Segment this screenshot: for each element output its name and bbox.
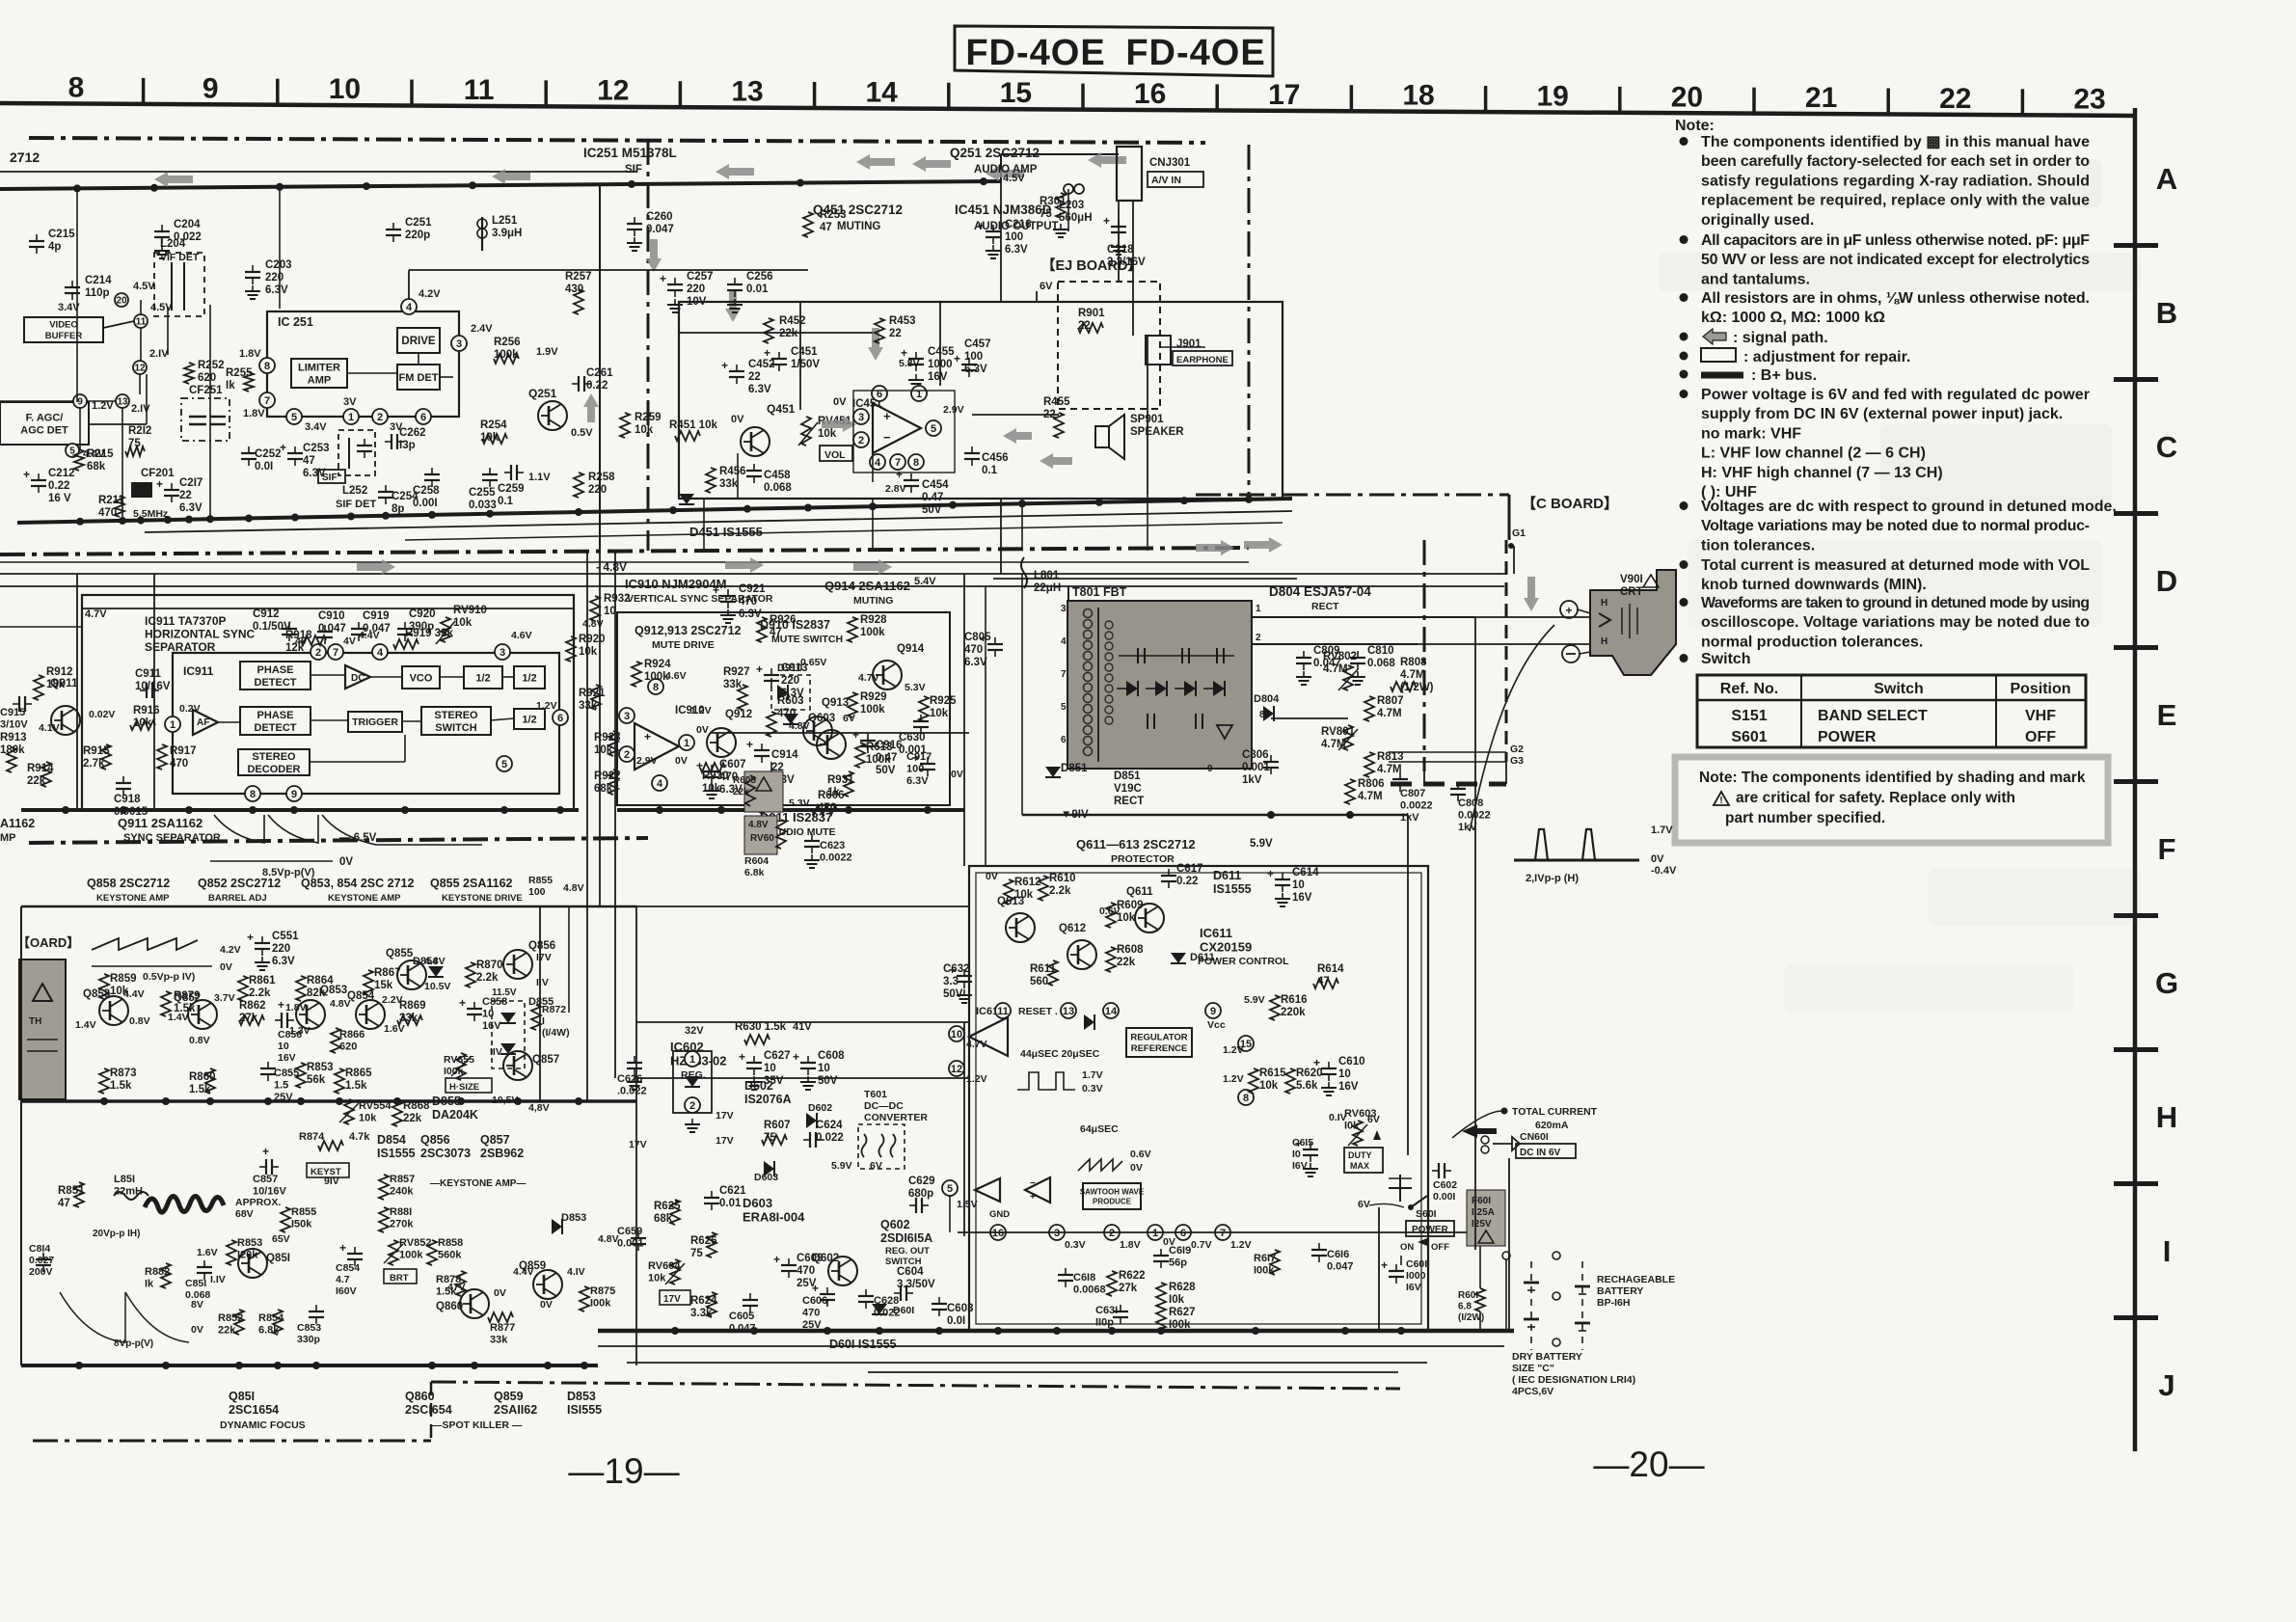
svg-text:DETECT: DETECT: [255, 722, 297, 734]
voltage 17V: [629, 1135, 734, 1150]
svg-text:0.033: 0.033: [469, 500, 497, 511]
svg-text:4.7k: 4.7k: [349, 1131, 370, 1143]
svg-text:C203: C203: [265, 259, 292, 271]
svg-text:B: B: [2156, 296, 2177, 330]
board EJ outline: [1058, 282, 1160, 409]
svg-text:47: 47: [820, 222, 832, 233]
wire audio v975: [939, 302, 941, 386]
svg-text:DUTY: DUTY: [1348, 1150, 1372, 1160]
svg-text:220p: 220p: [405, 230, 430, 241]
capacitor C918: [114, 776, 149, 818]
svg-text:CRT: CRT: [1620, 586, 1643, 598]
svg-text:C810: C810: [1367, 645, 1394, 657]
inductor L251: [477, 215, 522, 251]
svg-text:L252: L252: [342, 485, 367, 497]
svg-text:I00k: I00k: [590, 1298, 611, 1310]
svg-text:KEYSTONE AMP: KEYSTONE AMP: [328, 893, 401, 904]
capacitor C617: [1161, 863, 1203, 888]
svg-text:C256: C256: [746, 271, 773, 283]
diode D910: [771, 657, 826, 710]
svg-text:R901: R901: [1078, 308, 1105, 319]
svg-text:0V: 0V: [986, 871, 998, 882]
diode D602: [806, 1102, 832, 1128]
wire fbt bottom: [1022, 811, 1408, 819]
svg-text:3/10V: 3/10V: [0, 719, 28, 731]
svg-text:4.6V: 4.6V: [511, 630, 532, 641]
svg-text:47: 47: [1317, 976, 1330, 987]
svg-text:22μH: 22μH: [1034, 582, 1061, 594]
svg-text:220: 220: [588, 484, 607, 496]
svg-text:0.5V: 0.5V: [571, 427, 593, 439]
svg-text:Note: The components identifie: Note: The components identified by shadi…: [1699, 770, 2086, 786]
pin 8: [648, 670, 687, 694]
svg-text:33k: 33k: [723, 679, 743, 690]
capacitor C854: [336, 1241, 363, 1297]
switch S601: [1400, 1196, 1454, 1253]
svg-text:R88I: R88I: [390, 1206, 412, 1218]
svg-text:4.IV: 4.IV: [567, 1266, 585, 1278]
svg-text:PHASE: PHASE: [257, 710, 294, 721]
svg-text:0.8V: 0.8V: [189, 1035, 210, 1046]
svg-text:0.01: 0.01: [746, 284, 769, 295]
svg-text:D804 ESJA57-04: D804 ESJA57-04: [1269, 584, 1371, 599]
svg-text:H: H: [2156, 1100, 2177, 1134]
svg-text:2SCI654: 2SCI654: [405, 1403, 452, 1417]
filter CF251: [181, 385, 230, 441]
svg-text:2.2k: 2.2k: [249, 987, 271, 999]
pin 2: [853, 432, 869, 447]
scan ghost blob 6: [1784, 964, 2073, 1013]
pin 11: [134, 314, 148, 328]
svg-text:C260: C260: [646, 211, 673, 223]
svg-text:VOL: VOL: [824, 449, 846, 461]
voltage 5.4V: [914, 576, 936, 587]
svg-text:6V: 6V: [1367, 1114, 1380, 1125]
svg-text:Q858: Q858: [83, 988, 111, 1000]
svg-text:AUDIO OUTPUT: AUDIO OUTPUT: [974, 221, 1059, 232]
svg-text:4.7V: 4.7V: [966, 1039, 987, 1050]
connector CNJ301: [1117, 147, 1203, 201]
svg-text:4.7M: 4.7M: [1400, 669, 1425, 681]
svg-text:I3p: I3p: [399, 440, 416, 451]
svg-text:Q852: Q852: [174, 992, 201, 1004]
svg-text:+: +: [1381, 1258, 1388, 1272]
resistor R915: [83, 744, 111, 770]
svg-text:9: 9: [291, 789, 297, 800]
svg-text:8: 8: [913, 457, 919, 469]
svg-text:R932: R932: [604, 593, 631, 605]
svg-text:Vcc: Vcc: [1207, 1019, 1226, 1031]
block PHASE DETECT 1: [240, 662, 311, 689]
IC451 label: [955, 203, 1059, 232]
svg-text:R882: R882: [145, 1266, 170, 1278]
svg-text:620: 620: [339, 1041, 357, 1053]
resistor R923: [594, 731, 621, 756]
svg-text:— 6.5V: — 6.5V: [339, 832, 377, 844]
svg-text:50V: 50V: [818, 1075, 838, 1087]
svg-text:0.47: 0.47: [922, 492, 943, 503]
svg-text:S151: S151: [1731, 708, 1767, 724]
svg-text:470: 470: [802, 1308, 820, 1319]
svg-text:1.5k: 1.5k: [345, 1080, 367, 1092]
svg-text:CN60I: CN60I: [1520, 1131, 1549, 1143]
capacitor C215: [29, 229, 75, 254]
svg-text:(I/4W): (I/4W): [542, 1027, 570, 1039]
svg-text:C919: C919: [363, 610, 390, 622]
svg-text:R610: R610: [1049, 873, 1076, 884]
svg-text:R611: R611: [1030, 963, 1056, 975]
svg-text:RESET .: RESET .: [1018, 1006, 1058, 1017]
svg-text:Q852 2SC2712: Q852 2SC2712: [198, 877, 281, 890]
svg-text:6.3V: 6.3V: [272, 956, 295, 967]
svg-text:5: 5: [947, 1183, 953, 1195]
resistor R861: [238, 975, 276, 1001]
svg-text:C623: C623: [820, 840, 845, 852]
signal arrow into amp: [822, 417, 856, 432]
wire left edge keystone: [20, 906, 22, 1365]
svg-text:4.5V: 4.5V: [133, 281, 155, 292]
wire vertical divider x672: [647, 140, 650, 551]
CRT plus terminal: [1560, 601, 1578, 618]
svg-text:1: 1: [1152, 1228, 1158, 1239]
wire protector box: [969, 866, 1428, 1331]
resistor R875: [580, 1285, 615, 1311]
svg-text:R861: R861: [249, 975, 276, 987]
svg-text:6.3V: 6.3V: [964, 364, 987, 375]
potentiometer RV852: [384, 1237, 431, 1265]
scan ghost blob 3: [1880, 424, 2112, 511]
D855 label: [432, 1095, 550, 1122]
inductor L252 SIF DET: [336, 430, 376, 510]
svg-text:470: 470: [964, 644, 983, 656]
speaker SP901: [1095, 414, 1184, 459]
svg-text:Ref. No.: Ref. No.: [1720, 681, 1778, 697]
svg-text:27k: 27k: [239, 1013, 258, 1024]
svg-text:Q85I: Q85I: [266, 1253, 290, 1264]
resistor R853b: [296, 1062, 334, 1088]
svg-text:R851: R851: [58, 1185, 85, 1197]
svg-text:4.7M: 4.7M: [1358, 791, 1383, 802]
wire vert x80 mid: [76, 574, 78, 810]
svg-text:IC910 NJM2904M: IC910 NJM2904M: [625, 577, 727, 591]
svg-text:0.22: 0.22: [48, 480, 69, 492]
resistor R865: [335, 1068, 372, 1094]
svg-text:1.5k: 1.5k: [110, 1080, 132, 1092]
svg-text:E: E: [2157, 698, 2177, 732]
T601 label: [864, 1089, 928, 1123]
signal path arrow: [357, 559, 395, 575]
svg-text:56p: 56p: [1169, 1257, 1187, 1269]
svg-text:R614: R614: [1317, 963, 1344, 975]
svg-text:Q451: Q451: [767, 402, 796, 416]
svg-text:0.047: 0.047: [363, 623, 391, 635]
resistor R451: [669, 419, 717, 441]
Q914 label: [824, 579, 910, 607]
svg-text:2: 2: [377, 412, 383, 423]
svg-text:16V: 16V: [928, 371, 948, 383]
svg-text:−: −: [883, 430, 891, 445]
svg-text:C456: C456: [982, 452, 1009, 464]
svg-text:+: +: [812, 1282, 819, 1295]
svg-text:R607: R607: [764, 1120, 791, 1131]
arrow thick left: [1462, 1124, 1497, 1138]
svg-text:IS1555: IS1555: [1213, 882, 1252, 896]
svg-text:IC911 TA7370P: IC911 TA7370P: [145, 614, 227, 628]
voltage 4.5V: [150, 302, 173, 313]
svg-text:OFF: OFF: [2025, 729, 2056, 745]
svg-text:5.9V: 5.9V: [1244, 994, 1265, 1006]
capacitor C602: [1432, 1163, 1457, 1203]
svg-text:R927: R927: [723, 666, 750, 678]
capacitor C255: [469, 468, 498, 511]
svg-text:0.22: 0.22: [586, 380, 608, 392]
capacitor C623: [804, 834, 852, 868]
svg-text:ON: ON: [1400, 1242, 1414, 1253]
pin 4: [359, 630, 388, 660]
resistor R614: [1313, 963, 1344, 988]
svg-text:Q912: Q912: [725, 709, 752, 720]
svg-text:-0.4V: -0.4V: [1651, 865, 1677, 877]
svg-text:DRIVE: DRIVE: [401, 336, 435, 347]
svg-text:7: 7: [333, 647, 338, 659]
capacitor C624: [803, 1120, 844, 1148]
Q451 label: [813, 203, 903, 232]
svg-text:3V: 3V: [343, 396, 357, 408]
svg-text:C628: C628: [874, 1295, 899, 1307]
wire second top line: [0, 171, 636, 173]
svg-text:J: J: [2158, 1368, 2174, 1402]
capacitor C921: [713, 583, 766, 623]
waveform horizontal pulses: [1514, 825, 1677, 884]
capacitor C251: [386, 217, 432, 242]
svg-text:5: 5: [291, 412, 297, 423]
svg-text:I00k: I00k: [1169, 1319, 1191, 1331]
svg-text:R924: R924: [644, 659, 671, 670]
svg-text:no mark: VHF: no mark: VHF: [1701, 425, 1801, 442]
svg-text:2.2k: 2.2k: [476, 972, 499, 984]
svg-text:22: 22: [889, 328, 902, 339]
resistor R627: [1156, 1307, 1196, 1333]
svg-text:0.068: 0.068: [764, 482, 792, 494]
IC602 label: [670, 1040, 727, 1081]
svg-text:4.8V: 4.8V: [748, 820, 769, 830]
wire audio h430: [972, 414, 1059, 416]
svg-text:R915: R915: [83, 745, 110, 757]
transistor Q860: [436, 1282, 506, 1318]
transformer T801 FBT dark block: [1067, 585, 1252, 769]
svg-text:2: 2: [1109, 1228, 1115, 1239]
svg-text:75: 75: [764, 1132, 776, 1144]
capacitor C253: [280, 441, 330, 479]
svg-text:8: 8: [653, 682, 659, 693]
svg-text:4.5V: 4.5V: [1003, 173, 1025, 184]
svg-text:R858: R858: [438, 1237, 463, 1249]
page number 20: [1593, 1445, 1704, 1484]
svg-text:R625: R625: [654, 1201, 681, 1212]
svg-text:0.01: 0.01: [719, 1198, 742, 1209]
svg-text:0V: 0V: [833, 396, 847, 408]
svg-text:1.5: 1.5: [274, 1080, 288, 1092]
svg-text:C: C: [2156, 430, 2177, 464]
svg-text:22mH: 22mH: [114, 1186, 143, 1198]
D911 audio mute label: [760, 810, 836, 838]
pin 8: [245, 786, 260, 801]
svg-text:1: 1: [689, 1054, 695, 1066]
svg-text:620mA: 620mA: [1535, 1120, 1569, 1131]
wire keystone right col: [540, 906, 569, 1101]
svg-text:100k: 100k: [860, 627, 885, 638]
pin 4: [652, 775, 667, 791]
resistor R920: [566, 618, 606, 662]
potentiometer RV603: [1344, 1108, 1376, 1146]
svg-text:R608: R608: [1117, 944, 1144, 956]
svg-text:9: 9: [77, 397, 83, 408]
resistor R851: [58, 1182, 85, 1209]
pin 5: [926, 404, 964, 436]
svg-text:R922: R922: [594, 770, 621, 782]
potentiometer RV451: [798, 416, 852, 461]
voltage 0.1V: [1329, 1112, 1347, 1123]
svg-text:−: −: [1030, 1178, 1036, 1189]
svg-text:23: 23: [2073, 84, 2105, 116]
svg-text:20Vp-p IH): 20Vp-p IH): [93, 1229, 140, 1239]
svg-text:SPEAKER: SPEAKER: [1130, 426, 1184, 438]
adjustment DUTY MAX: [1344, 1148, 1383, 1173]
svg-text:22k: 22k: [27, 775, 46, 787]
svg-text:0.068: 0.068: [1367, 658, 1395, 669]
svg-text:3: 3: [1054, 1228, 1060, 1239]
signal path arrow: [583, 393, 599, 422]
wire dash vertical x1477: [1423, 540, 1426, 771]
wire audio v905: [872, 453, 874, 482]
voltage 65V: [272, 1233, 290, 1245]
svg-text:+: +: [773, 1253, 780, 1266]
svg-text:AMP: AMP: [308, 374, 331, 386]
svg-text:SIF: SIF: [625, 164, 642, 176]
wire fbt top h: [993, 578, 1297, 580]
svg-text:4.1V: 4.1V: [39, 722, 60, 734]
svg-text:+: +: [156, 477, 163, 491]
svg-text:22k: 22k: [403, 1113, 422, 1124]
transformer T801 internal rectifier: [1117, 648, 1234, 739]
svg-text:22: 22: [1078, 320, 1091, 332]
IC910 label: [625, 577, 773, 605]
svg-text:C629: C629: [908, 1176, 935, 1187]
svg-text:POWER: POWER: [1412, 1225, 1449, 1235]
svg-text:D851: D851: [1061, 763, 1088, 774]
svg-text:RECT: RECT: [1311, 601, 1339, 612]
svg-text:470: 470: [797, 1265, 815, 1277]
capacitor C216: [978, 219, 1032, 258]
svg-text:RV655: RV655: [444, 1054, 474, 1066]
svg-text:R252: R252: [198, 360, 225, 371]
svg-text:Q603: Q603: [808, 713, 835, 724]
svg-text:75: 75: [1040, 208, 1052, 220]
svg-text:R866: R866: [339, 1029, 365, 1041]
svg-text:R929: R929: [860, 691, 887, 703]
capacitor C808: [1450, 782, 1491, 833]
svg-text:33k: 33k: [490, 1335, 508, 1346]
svg-text:19: 19: [1537, 80, 1569, 112]
pin 1: [911, 386, 927, 401]
svg-text:2SC3073: 2SC3073: [420, 1147, 471, 1160]
title box: [955, 26, 1273, 76]
svg-text:R859: R859: [110, 973, 137, 985]
R604 label: [744, 855, 769, 879]
capacitor C252: [241, 446, 282, 473]
capacitor C203: [245, 259, 292, 299]
approx 68V: [235, 1197, 281, 1220]
label 20Vpp: [93, 1229, 140, 1239]
connector CN601: [1481, 1131, 1576, 1158]
svg-text:R60I: R60I: [1458, 1290, 1478, 1301]
svg-text:BATTERY: BATTERY: [1597, 1285, 1643, 1297]
svg-text:16 V: 16 V: [48, 493, 71, 504]
svg-text:1.4V: 1.4V: [75, 1019, 96, 1031]
svg-text:Note:: Note:: [1675, 118, 1715, 134]
resistor R931: [827, 771, 854, 798]
svg-text:0.3V: 0.3V: [1065, 1239, 1086, 1251]
svg-text:G2: G2: [1510, 743, 1524, 755]
voltage 1.2V: [1223, 1044, 1244, 1085]
svg-text:1/50V: 1/50V: [791, 359, 820, 370]
wire cnj301 col2: [1132, 201, 1134, 336]
pin 7: [1215, 1225, 1252, 1251]
wire video buffer: [103, 300, 141, 328]
svg-text:Q858 2SC2712: Q858 2SC2712: [87, 877, 170, 890]
svg-text:—19—: —19—: [568, 1451, 679, 1491]
svg-text:6V: 6V: [1358, 1199, 1370, 1210]
svg-text:6.8: 6.8: [1458, 1302, 1472, 1312]
voltage 0V: [951, 769, 963, 780]
voltage 5.9V: [1250, 838, 1273, 850]
svg-text:R913: R913: [0, 732, 27, 743]
svg-text:4: 4: [875, 457, 881, 469]
svg-text:R923: R923: [594, 732, 621, 743]
svg-text:17V: 17V: [716, 1110, 734, 1122]
voltage 5.3V: [789, 797, 810, 809]
svg-text:+: +: [1103, 214, 1110, 228]
pin 2: [295, 635, 326, 660]
svg-text:5.4V: 5.4V: [914, 576, 936, 587]
capacitor C607: [696, 759, 746, 798]
wire left keystone vertical: [20, 906, 22, 1134]
svg-text:470: 470: [170, 758, 188, 770]
capacitor C919: [351, 610, 391, 641]
pin 3: [451, 323, 493, 351]
resistor R807: [1364, 695, 1404, 721]
svg-text:F. AGC/: F. AGC/: [26, 412, 64, 423]
svg-text:R872: R872: [542, 1004, 566, 1015]
svg-text:1.2V: 1.2V: [1223, 1044, 1244, 1056]
svg-text:SAWTOOH WAVE: SAWTOOH WAVE: [1080, 1187, 1145, 1196]
signal path arrow extra4: [1040, 453, 1072, 469]
svg-text:C610: C610: [1338, 1056, 1365, 1068]
svg-text:0.001: 0.001: [617, 1238, 644, 1250]
svg-text:A1162: A1162: [0, 817, 35, 830]
wire mid vertical x1038: [1000, 499, 1002, 574]
potentiometer RV655: [444, 1053, 492, 1093]
signal path arrow: [1244, 537, 1283, 553]
svg-text:2.IV: 2.IV: [131, 403, 150, 415]
pin 6: [872, 386, 887, 401]
pin 3: [619, 708, 635, 723]
svg-text:4V: 4V: [343, 635, 356, 647]
battery dry cells: [1524, 1261, 1539, 1350]
svg-text:R628: R628: [1169, 1282, 1196, 1293]
svg-text:POWER: POWER: [1818, 729, 1877, 745]
resistor R254: [480, 419, 507, 444]
